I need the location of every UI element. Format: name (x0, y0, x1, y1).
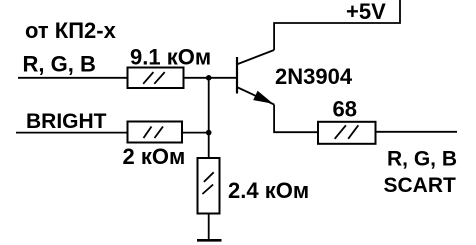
svg-text:2 кОм: 2 кОм (123, 144, 186, 169)
resistor R2 2 кОм body (128, 122, 183, 143)
svg-text:R, G, B: R, G, B (387, 147, 457, 170)
wire R1 to transistor base (184, 77, 237, 79)
svg-text:2N3904: 2N3904 (275, 64, 353, 89)
junction node A (base/divider) (206, 75, 212, 81)
wire vertical node A to R3 top (208, 78, 210, 158)
ground (197, 239, 222, 242)
resistor R4 68 body (318, 122, 376, 144)
wire collector to +5V rail (274, 0, 400, 50)
svg-text:68: 68 (333, 97, 357, 122)
wire R2 to junction B (182, 132, 209, 134)
junction node B (divider/R3) (206, 130, 212, 136)
svg-text:9.1 кОм: 9.1 кОм (130, 45, 211, 70)
svg-text:+5V: +5V (346, 0, 386, 24)
wire input R,G,B to R1 (includes label underline) (18, 77, 128, 79)
wire emitter down and right to R4 (274, 105, 318, 133)
transistor Q1 2N3904 (237, 50, 274, 105)
svg-text:SCART: SCART (384, 174, 457, 197)
svg-text:от КП2-х: от КП2-х (25, 18, 117, 43)
resistor R3 2.4 кОм body (vertical) (198, 158, 220, 214)
wire R3 bottom to ground (208, 214, 210, 241)
svg-text:2.4 кОм: 2.4 кОм (228, 178, 309, 203)
wire R4 to SCART output (376, 131, 458, 133)
resistor R1 9.1 кОм body (128, 68, 184, 89)
wire BRIGHT to R2 (includes label underline) (16, 132, 128, 134)
svg-text:BRIGHT: BRIGHT (26, 110, 107, 133)
svg-text:R, G, B: R, G, B (23, 52, 96, 77)
